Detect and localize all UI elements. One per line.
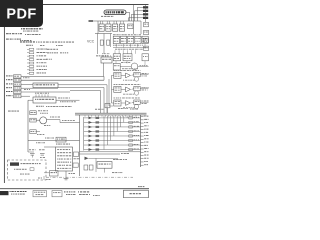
chip row 2: [113, 50, 135, 61]
wire row1 long: [21, 75, 104, 77]
K2 left label: [36, 138, 54, 144]
footer box 1: [33, 191, 47, 197]
top bus wire: [89, 20, 142, 22]
option row 3: [20, 173, 30, 176]
U20 wire down: [103, 63, 105, 76]
option part A: [10, 162, 41, 165]
svg-text:PDF: PDF: [6, 7, 36, 23]
row2-3 wires: [116, 61, 149, 69]
gate cells: [112, 70, 149, 109]
buffer U10: [33, 83, 58, 88]
J3 top wire: [44, 144, 70, 147]
left text LDB: [8, 110, 19, 113]
option row 2: [14, 168, 34, 171]
top bus verticals: [98, 5, 146, 34]
schematic top border: [4, 4, 149, 6]
right edge pads: [144, 22, 149, 50]
svg-text:VCC: VCC: [87, 40, 95, 44]
bus left rail: [79, 115, 81, 176]
bus left rail2: [83, 117, 85, 151]
schematic left border: [3, 27, 5, 183]
VCC caption: [96, 54, 108, 57]
capacitor C5: [28, 149, 36, 157]
comp above bus: [105, 103, 110, 113]
pad box right: [142, 54, 149, 61]
U11 out labels: [58, 98, 76, 103]
under U11 text: [36, 106, 72, 107]
left rail: [28, 100, 33, 152]
note 4-bit line: [6, 39, 31, 41]
footer small mark: [93, 194, 100, 197]
J3 right attach 1: [74, 152, 79, 157]
chip U20: [101, 53, 112, 63]
register list column: [27, 48, 47, 74]
dashed option box: [8, 160, 47, 180]
page background: [0, 0, 149, 198]
gate bus verticals: [109, 75, 113, 106]
bus top ticks: [85, 115, 136, 117]
wire row3: [21, 83, 33, 85]
footer mid text: [64, 191, 90, 195]
note long row: [20, 41, 74, 42]
dash-dot border: [46, 176, 133, 178]
pair boxes: [84, 165, 93, 170]
J3 right attach 2: [73, 158, 79, 167]
wire row5: [21, 91, 70, 93]
Q1 out wire: [47, 120, 80, 123]
capacitor C6: [39, 149, 45, 157]
relay K2: [56, 137, 66, 142]
bus top double line: [75, 113, 147, 115]
U11 pin labels: [35, 92, 49, 95]
chip row 1: [113, 34, 148, 47]
inter wire: [113, 48, 149, 50]
title text line 2: [23, 30, 38, 33]
VCC rails: [95, 34, 112, 55]
footer rule: [0, 188, 149, 190]
VCC caps: [100, 40, 110, 45]
note LDB: [26, 45, 63, 46]
PDF badge: [0, 0, 43, 27]
sub box U30: [97, 162, 112, 169]
note S/N line: [6, 33, 41, 35]
wire row6: [21, 95, 30, 97]
below bus wire: [80, 152, 130, 155]
rail box 3: [30, 130, 45, 135]
bus staircase verticals: [104, 116, 127, 150]
footer box 2: [52, 191, 62, 197]
pill caption: [101, 15, 114, 18]
decoder chips: [99, 21, 133, 31]
top-right pads fan: [129, 6, 149, 21]
arrow row: [85, 157, 128, 160]
border marks: [38, 176, 51, 180]
chip row 3: [113, 62, 130, 70]
footer logo: [0, 191, 9, 195]
marks above bus: [95, 108, 138, 110]
U10 out wire: [58, 85, 107, 113]
footer text left: [10, 191, 27, 195]
row small labels: [23, 77, 30, 90]
ground G1: [64, 171, 75, 180]
rail box 1: [30, 110, 48, 114]
wire row2 long: [21, 79, 104, 81]
circle U24: [126, 63, 148, 70]
bus rows: [84, 117, 141, 151]
chip U11: [33, 94, 56, 103]
footer right caption: [138, 185, 144, 188]
rail box 2: [30, 118, 40, 122]
left input boxes: [6, 75, 21, 98]
Q1 wire labels: [50, 117, 75, 121]
footer right box: [124, 190, 149, 198]
register list labels: [46, 49, 68, 60]
J3 bottom box: [44, 171, 58, 176]
connector J3 block: [56, 147, 73, 171]
chip row1 under-labels: [113, 44, 143, 47]
title text line 1: [21, 28, 43, 29]
pill bus vertical: [129, 12, 131, 21]
transistor Q1: [40, 117, 51, 126]
mid wire C: [70, 91, 101, 114]
long wire drops: [103, 76, 105, 80]
VCC label: [87, 40, 95, 44]
U11 out wire: [56, 99, 80, 101]
wire row4: [21, 87, 58, 89]
net label pill: [104, 10, 130, 15]
mid wire B: [58, 88, 104, 114]
connector J5: [141, 115, 149, 167]
bottom long wire: [28, 140, 80, 142]
bus box bottom line: [80, 151, 141, 153]
sub box wires: [96, 158, 123, 173]
